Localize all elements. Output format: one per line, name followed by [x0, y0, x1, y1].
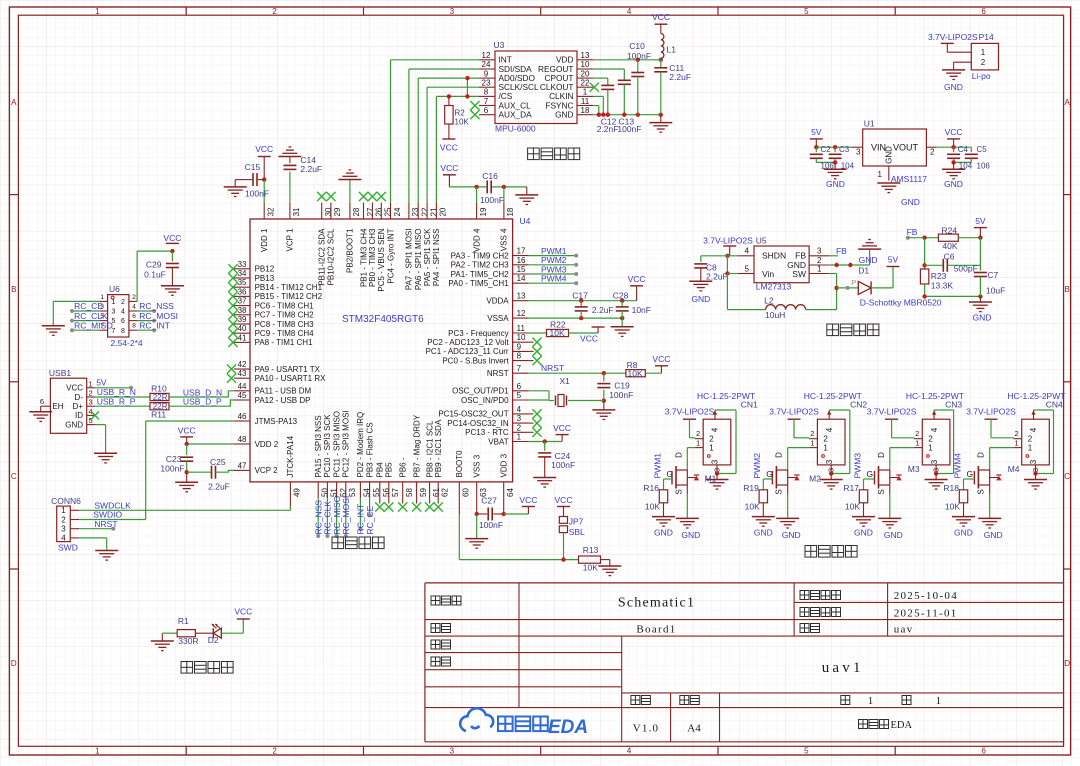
- svg-text:31: 31: [292, 207, 301, 216]
- svg-text:A4: A4: [687, 722, 701, 734]
- svg-text:Schematic1: Schematic1: [618, 596, 695, 611]
- svg-text:49: 49: [293, 488, 302, 497]
- svg-text:VCC: VCC: [234, 607, 252, 617]
- svg-text:2: 2: [61, 515, 66, 524]
- svg-text:Board1: Board1: [636, 624, 676, 636]
- svg-text:62: 62: [441, 488, 450, 497]
- svg-text:PB5: PB5: [385, 462, 394, 478]
- svg-text:2025-10-04: 2025-10-04: [894, 590, 958, 602]
- svg-text:10K: 10K: [583, 563, 598, 573]
- svg-text:4: 4: [744, 247, 749, 256]
- svg-text:C15: C15: [245, 162, 261, 172]
- svg-text:8: 8: [517, 352, 522, 361]
- svg-text:26: 26: [375, 207, 384, 216]
- svg-text:4: 4: [711, 427, 720, 432]
- svg-text:24: 24: [393, 207, 402, 216]
- svg-text:2: 2: [1015, 429, 1019, 438]
- svg-text:2: 2: [132, 294, 136, 301]
- svg-text:10K: 10K: [945, 502, 960, 512]
- svg-text:VCC: VCC: [178, 426, 196, 436]
- svg-text:EDA: EDA: [548, 717, 588, 738]
- svg-text:USB_R_P: USB_R_P: [97, 396, 136, 406]
- svg-text:1: 1: [823, 444, 828, 453]
- svg-text:1: 1: [928, 444, 933, 453]
- svg-text:2025-11-01: 2025-11-01: [894, 608, 958, 620]
- svg-text:ID: ID: [75, 411, 83, 420]
- svg-text:64: 64: [506, 488, 515, 497]
- svg-text:2.2uF: 2.2uF: [669, 72, 691, 82]
- svg-text:PA4 - SPI1 NSS: PA4 - SPI1 NSS: [432, 229, 441, 287]
- svg-text:PB7 - Mag DRDY: PB7 - Mag DRDY: [412, 414, 421, 477]
- svg-text:22: 22: [581, 79, 590, 88]
- svg-text:29: 29: [333, 207, 342, 216]
- svg-text:1: 1: [100, 294, 104, 301]
- svg-text:U3: U3: [494, 40, 505, 50]
- svg-text:R17: R17: [843, 483, 859, 493]
- svg-text:4: 4: [930, 427, 939, 432]
- svg-text:3.7V-LIPO2S: 3.7V-LIPO2S: [703, 236, 753, 246]
- svg-text:U4: U4: [520, 216, 531, 226]
- svg-text:8: 8: [132, 323, 136, 330]
- svg-text:VSSA: VSSA: [487, 314, 509, 323]
- svg-text:VDDA: VDDA: [486, 297, 509, 306]
- svg-text:11: 11: [517, 324, 526, 333]
- svg-text:4: 4: [61, 534, 66, 543]
- svg-text:D: D: [977, 452, 986, 458]
- svg-text:2: 2: [810, 429, 814, 438]
- svg-text:36: 36: [238, 287, 247, 296]
- svg-text:2.2uF: 2.2uF: [208, 482, 230, 492]
- svg-text:D2: D2: [208, 635, 219, 645]
- svg-text:100nF: 100nF: [160, 463, 184, 473]
- svg-text:Vin: Vin: [762, 269, 774, 279]
- svg-text:P: P: [851, 278, 856, 287]
- svg-text:2: 2: [915, 429, 919, 438]
- svg-text:3: 3: [932, 468, 941, 472]
- svg-text:3: 3: [450, 7, 455, 16]
- svg-text:106: 106: [977, 161, 991, 170]
- svg-text:3: 3: [89, 398, 93, 407]
- svg-text:16: 16: [517, 256, 526, 265]
- svg-text:PC3 - Frequency: PC3 - Frequency: [448, 329, 508, 338]
- svg-text:PC12 - SPI3 MOSI: PC12 - SPI3 MOSI: [342, 410, 351, 477]
- svg-text:0.1uF: 0.1uF: [144, 269, 166, 279]
- svg-text:GND: GND: [954, 528, 973, 538]
- svg-text:10K: 10K: [845, 502, 860, 512]
- svg-text:1: 1: [817, 265, 822, 274]
- svg-text:VCC: VCC: [580, 334, 598, 344]
- svg-text:GND: GND: [691, 294, 710, 304]
- svg-text:19: 19: [479, 207, 488, 216]
- svg-text:A: A: [11, 98, 17, 107]
- svg-text:100nF: 100nF: [609, 390, 633, 400]
- svg-text:41: 41: [238, 333, 247, 342]
- svg-text:VCC: VCC: [440, 143, 458, 153]
- svg-text:VCC: VCC: [628, 274, 646, 284]
- svg-text:5V: 5V: [975, 216, 986, 226]
- svg-text:104: 104: [841, 161, 855, 170]
- svg-text:R11: R11: [151, 410, 166, 420]
- svg-text:17: 17: [517, 247, 526, 256]
- svg-text:20: 20: [581, 69, 590, 78]
- svg-text:C17: C17: [572, 291, 588, 301]
- svg-text:U6: U6: [109, 284, 120, 294]
- svg-text:1: 1: [868, 695, 874, 707]
- svg-text:VCC: VCC: [553, 423, 571, 433]
- svg-text:2: 2: [89, 389, 93, 398]
- svg-text:USB1: USB1: [49, 368, 71, 378]
- svg-text:3.7V-LIPO2S: 3.7V-LIPO2S: [966, 407, 1016, 417]
- svg-text:C: C: [11, 472, 17, 481]
- svg-text:2: 2: [696, 429, 700, 438]
- svg-text:100nF: 100nF: [245, 189, 269, 199]
- svg-text:52: 52: [339, 488, 348, 497]
- svg-text:5V: 5V: [888, 255, 899, 265]
- svg-text:PC0 - S.Bus Invert: PC0 - S.Bus Invert: [442, 356, 509, 365]
- svg-text:9: 9: [517, 342, 522, 351]
- svg-text:SWD: SWD: [58, 543, 78, 553]
- svg-text:GND: GND: [782, 530, 801, 540]
- svg-text:1: 1: [1028, 444, 1033, 453]
- svg-text:PB3 - Flash CS: PB3 - Flash CS: [365, 422, 374, 477]
- svg-text:C: C: [1064, 472, 1070, 481]
- svg-text:M4: M4: [1008, 464, 1020, 474]
- svg-text:PA15 - SPI3 NSS: PA15 - SPI3 NSS: [314, 415, 323, 477]
- svg-text:21: 21: [429, 207, 438, 216]
- svg-text:5: 5: [804, 7, 809, 16]
- svg-text:PC1 - ADC123_11 Curr: PC1 - ADC123_11 Curr: [426, 347, 509, 356]
- svg-text:3: 3: [61, 525, 66, 534]
- svg-text:PC7 - TIM8 CH2: PC7 - TIM8 CH2: [255, 311, 315, 320]
- svg-text:4: 4: [132, 303, 136, 310]
- svg-text:D1: D1: [858, 266, 869, 276]
- svg-text:FB: FB: [907, 227, 918, 237]
- svg-text:PB11-I2C2 SDA: PB11-I2C2 SDA: [318, 228, 327, 286]
- svg-text:2: 2: [1028, 435, 1033, 444]
- svg-text:100nF: 100nF: [480, 195, 504, 205]
- svg-text:S: S: [674, 489, 683, 494]
- svg-text:22R: 22R: [153, 393, 168, 402]
- svg-text:39: 39: [238, 315, 247, 324]
- svg-text:1: 1: [709, 444, 714, 453]
- svg-text:PC5 - VBUS SEN: PC5 - VBUS SEN: [377, 228, 386, 291]
- svg-text:VCC: VCC: [255, 144, 273, 154]
- svg-text:PWM4: PWM4: [952, 453, 962, 479]
- svg-text:B: B: [11, 285, 16, 294]
- svg-text:1: 1: [89, 379, 93, 388]
- svg-text:C2: C2: [821, 145, 832, 154]
- svg-text:VSS 4: VSS 4: [500, 228, 509, 251]
- svg-text:R1: R1: [178, 616, 189, 626]
- svg-text:3: 3: [930, 459, 939, 464]
- svg-text:PA10 - USART1 RX: PA10 - USART1 RX: [255, 374, 327, 383]
- svg-text:11: 11: [581, 97, 590, 106]
- svg-text:3: 3: [517, 414, 522, 423]
- svg-text:2.2nF: 2.2nF: [597, 124, 619, 134]
- svg-text:R23: R23: [931, 271, 947, 281]
- svg-text:13: 13: [517, 292, 526, 301]
- svg-text:330R: 330R: [178, 636, 198, 646]
- svg-text:uav1: uav1: [822, 660, 864, 676]
- svg-text:13.3K: 13.3K: [931, 281, 954, 291]
- svg-text:2: 2: [272, 7, 277, 16]
- svg-text:37: 37: [238, 297, 247, 306]
- svg-text:C16: C16: [482, 171, 498, 181]
- svg-text:2: 2: [928, 435, 933, 444]
- svg-text:20: 20: [439, 207, 448, 216]
- svg-text:PA0 - TIM5_CH1: PA0 - TIM5_CH1: [448, 279, 509, 288]
- svg-text:GND: GND: [681, 530, 700, 540]
- svg-text:D+: D+: [73, 402, 84, 411]
- svg-text:L2: L2: [764, 296, 774, 306]
- svg-text:VCC: VCC: [66, 384, 83, 393]
- svg-text:U1: U1: [864, 119, 875, 129]
- svg-text:G: G: [967, 469, 974, 479]
- svg-text:4: 4: [627, 7, 632, 16]
- svg-text:1: 1: [981, 48, 986, 57]
- svg-text:47: 47: [238, 461, 247, 470]
- svg-text:48: 48: [238, 435, 247, 444]
- svg-text:23: 23: [482, 79, 491, 88]
- svg-text:PC9 - TIM8 CH4: PC9 - TIM8 CH4: [255, 329, 315, 338]
- svg-text:PB6 -: PB6 -: [399, 457, 408, 477]
- svg-text:2: 2: [823, 435, 828, 444]
- svg-text:PC8 - TIM8 CH3: PC8 - TIM8 CH3: [255, 320, 315, 329]
- svg-text:PWM3: PWM3: [852, 453, 862, 479]
- svg-text:VDD 2: VDD 2: [255, 440, 279, 449]
- svg-text:1: 1: [1015, 438, 1019, 447]
- svg-text:PB2/BOOT1: PB2/BOOT1: [346, 228, 355, 273]
- svg-text:1: 1: [696, 438, 700, 447]
- svg-text:LM27313: LM27313: [756, 282, 792, 292]
- svg-text:3.7V-LIPO2S: 3.7V-LIPO2S: [769, 407, 819, 417]
- svg-text:C29: C29: [146, 260, 162, 270]
- svg-text:8: 8: [121, 328, 125, 335]
- svg-text:PB15 - TIM12 CH2: PB15 - TIM12 CH2: [255, 292, 323, 301]
- svg-text:7: 7: [484, 97, 489, 106]
- svg-text:RC_MOSI: RC_MOSI: [341, 496, 351, 535]
- svg-text:3: 3: [856, 148, 861, 157]
- svg-text:PA5 - SPI1 SCK: PA5 - SPI1 SCK: [423, 228, 432, 286]
- svg-text:6: 6: [40, 397, 44, 406]
- svg-text:Li-po: Li-po: [972, 71, 991, 81]
- svg-text:3: 3: [713, 468, 722, 472]
- svg-text:12: 12: [517, 309, 526, 318]
- svg-text:GND: GND: [901, 197, 920, 207]
- svg-text:PC15-OSC32_OUT: PC15-OSC32_OUT: [438, 410, 508, 419]
- svg-text:4: 4: [1029, 427, 1038, 432]
- svg-text:PD2 - Modem IRQ: PD2 - Modem IRQ: [356, 412, 365, 478]
- svg-text:3: 3: [825, 459, 834, 464]
- svg-text:M2: M2: [809, 474, 821, 484]
- svg-text:2: 2: [121, 299, 125, 306]
- svg-text:1: 1: [915, 438, 919, 447]
- svg-text:C3: C3: [839, 145, 850, 154]
- svg-text:59: 59: [419, 488, 428, 497]
- svg-text:NRST: NRST: [541, 363, 564, 373]
- svg-text:3: 3: [711, 459, 720, 464]
- svg-text:PC10 - SPI3 SCK: PC10 - SPI3 SCK: [323, 414, 332, 478]
- svg-text:SW: SW: [792, 269, 806, 279]
- svg-text:3: 3: [1031, 468, 1040, 472]
- svg-text:3: 3: [450, 747, 455, 756]
- svg-text:27: 27: [366, 207, 375, 216]
- svg-text:RC_NSS: RC_NSS: [139, 301, 174, 311]
- svg-text:46: 46: [238, 412, 247, 421]
- svg-text:S: S: [775, 489, 784, 494]
- svg-text:GND: GND: [826, 179, 845, 189]
- svg-text:32: 32: [267, 207, 276, 216]
- svg-text:PB1 - TIM3 CH4: PB1 - TIM3 CH4: [359, 228, 368, 287]
- svg-text:2: 2: [981, 58, 986, 67]
- svg-text:30: 30: [324, 207, 333, 216]
- svg-text:54: 54: [363, 488, 372, 497]
- svg-text:44: 44: [238, 382, 247, 391]
- svg-text:VCC: VCC: [440, 163, 458, 173]
- svg-text:STM32F405RGT6: STM32F405RGT6: [342, 314, 424, 325]
- svg-text:34: 34: [238, 269, 247, 278]
- svg-text:PWM4: PWM4: [541, 274, 567, 284]
- svg-text:VDD 3: VDD 3: [500, 453, 509, 477]
- svg-text:VCC: VCC: [519, 495, 537, 505]
- svg-text:R19: R19: [743, 483, 759, 493]
- svg-text:PB13: PB13: [255, 274, 275, 283]
- svg-text:104: 104: [959, 161, 973, 170]
- svg-text:VCC: VCC: [163, 233, 181, 243]
- svg-text:15: 15: [517, 265, 526, 274]
- svg-text:VCC: VCC: [652, 354, 670, 364]
- svg-text:JTCK-PA14: JTCK-PA14: [286, 435, 295, 477]
- svg-text:PB10-I2C2 SCL: PB10-I2C2 SCL: [327, 228, 336, 285]
- svg-text:6: 6: [981, 747, 986, 756]
- svg-text:2: 2: [517, 423, 522, 432]
- svg-text:106: 106: [821, 161, 835, 170]
- svg-text:RC_MOSI: RC_MOSI: [139, 311, 178, 321]
- svg-text:C10: C10: [629, 41, 645, 51]
- svg-text:2: 2: [817, 256, 822, 265]
- svg-text:4: 4: [121, 309, 125, 316]
- svg-text:43: 43: [238, 369, 247, 378]
- svg-text:2.2uF: 2.2uF: [592, 305, 614, 315]
- svg-text:D: D: [1064, 659, 1070, 668]
- svg-text:13: 13: [581, 51, 590, 60]
- svg-text:GND: GND: [884, 530, 903, 540]
- svg-text:CN3: CN3: [945, 400, 962, 410]
- svg-text:V1.0: V1.0: [633, 722, 660, 734]
- svg-text:12: 12: [482, 51, 491, 60]
- svg-text:PA12 - USB DP: PA12 - USB DP: [255, 396, 311, 405]
- svg-text:100nF: 100nF: [617, 124, 641, 134]
- svg-text:PB9 - I2C1 SDA: PB9 - I2C1 SDA: [434, 419, 443, 477]
- svg-text:100nF: 100nF: [627, 51, 651, 61]
- svg-text:JTMS-PA13: JTMS-PA13: [255, 417, 298, 426]
- svg-text:RC_INT: RC_INT: [139, 320, 170, 330]
- svg-text:VCC: VCC: [555, 495, 573, 505]
- svg-text:PC4 - Gyro INT: PC4 - Gyro INT: [386, 228, 395, 283]
- svg-text:3: 3: [1029, 459, 1038, 464]
- svg-text:2: 2: [709, 435, 714, 444]
- svg-text:8: 8: [484, 88, 489, 97]
- svg-text:PB4: PB4: [376, 462, 385, 478]
- svg-text:CN4: CN4: [1046, 400, 1063, 410]
- svg-text:BOOT0: BOOT0: [455, 450, 464, 478]
- svg-text:18: 18: [581, 106, 590, 115]
- svg-text:5V: 5V: [811, 127, 822, 137]
- svg-text:EDA: EDA: [891, 720, 913, 731]
- svg-text:PA1- TIM5_CH2: PA1- TIM5_CH2: [451, 270, 509, 279]
- svg-text:PA3 - TIM9 CH2: PA3 - TIM9 CH2: [451, 251, 509, 260]
- svg-text:42: 42: [238, 360, 247, 369]
- svg-text:9: 9: [484, 69, 489, 78]
- svg-text:PC2 - ADC123_12 Volt: PC2 - ADC123_12 Volt: [427, 338, 509, 347]
- svg-text:2: 2: [272, 747, 277, 756]
- svg-text:G: G: [867, 469, 874, 479]
- svg-text:10K: 10K: [628, 368, 643, 378]
- svg-text:D: D: [877, 452, 886, 458]
- svg-text:1: 1: [61, 506, 66, 515]
- svg-text:4: 4: [825, 427, 834, 432]
- svg-text:3: 3: [112, 309, 116, 316]
- svg-text:SHDN: SHDN: [762, 251, 786, 261]
- svg-text:24: 24: [482, 60, 491, 69]
- svg-text:3: 3: [817, 247, 822, 256]
- svg-text:3: 3: [827, 468, 836, 472]
- svg-text:GND: GND: [944, 179, 963, 189]
- svg-text:VBAT: VBAT: [488, 437, 508, 446]
- svg-text:MPU-6000: MPU-6000: [495, 124, 536, 134]
- svg-text:D: D: [674, 452, 683, 458]
- svg-text:40: 40: [238, 324, 247, 333]
- svg-text:5: 5: [804, 747, 809, 756]
- svg-text:A: A: [1065, 98, 1071, 107]
- svg-text:6: 6: [132, 313, 136, 320]
- svg-text:R2: R2: [455, 109, 466, 118]
- svg-text:4: 4: [89, 407, 93, 416]
- svg-text:1: 1: [517, 433, 522, 442]
- svg-text:10nF: 10nF: [632, 305, 651, 315]
- svg-text:1: 1: [878, 170, 883, 179]
- svg-text:2.2uF: 2.2uF: [300, 164, 322, 174]
- svg-text:VDD 4: VDD 4: [472, 228, 481, 252]
- svg-text:PA2 - TIM2 CH3: PA2 - TIM2 CH3: [451, 261, 509, 270]
- svg-text:PC6 - TIM8 CH1: PC6 - TIM8 CH1: [255, 301, 315, 310]
- svg-text:50: 50: [321, 488, 330, 497]
- svg-text:PB14 - TIM12 CH1: PB14 - TIM12 CH1: [255, 283, 323, 292]
- svg-text:1: 1: [95, 747, 100, 756]
- svg-text:CN1: CN1: [741, 400, 758, 410]
- svg-text:USB_D_P: USB_D_P: [183, 397, 222, 407]
- svg-text:6: 6: [484, 106, 489, 115]
- svg-text:25: 25: [384, 207, 393, 216]
- svg-text:PA7 - SPI1 MOSI: PA7 - SPI1 MOSI: [405, 229, 414, 291]
- svg-text:10K: 10K: [645, 502, 660, 512]
- svg-text:P14: P14: [979, 32, 994, 42]
- svg-text:38: 38: [238, 306, 247, 315]
- svg-text:51: 51: [330, 488, 339, 497]
- svg-text:D: D: [775, 452, 784, 458]
- svg-text:3.7V-LIPO2S: 3.7V-LIPO2S: [928, 32, 978, 42]
- svg-text:6: 6: [121, 318, 125, 325]
- svg-text:GND: GND: [854, 528, 873, 538]
- svg-text:33: 33: [238, 260, 247, 269]
- svg-text:VSS 3: VSS 3: [473, 454, 482, 477]
- svg-text:CN2: CN2: [850, 400, 867, 410]
- svg-text:RC_CLK: RC_CLK: [74, 311, 108, 321]
- svg-text:JP7: JP7: [569, 517, 584, 527]
- svg-text:4: 4: [517, 405, 522, 414]
- svg-text:VCC: VCC: [652, 12, 670, 22]
- svg-text:SBL: SBL: [569, 527, 585, 537]
